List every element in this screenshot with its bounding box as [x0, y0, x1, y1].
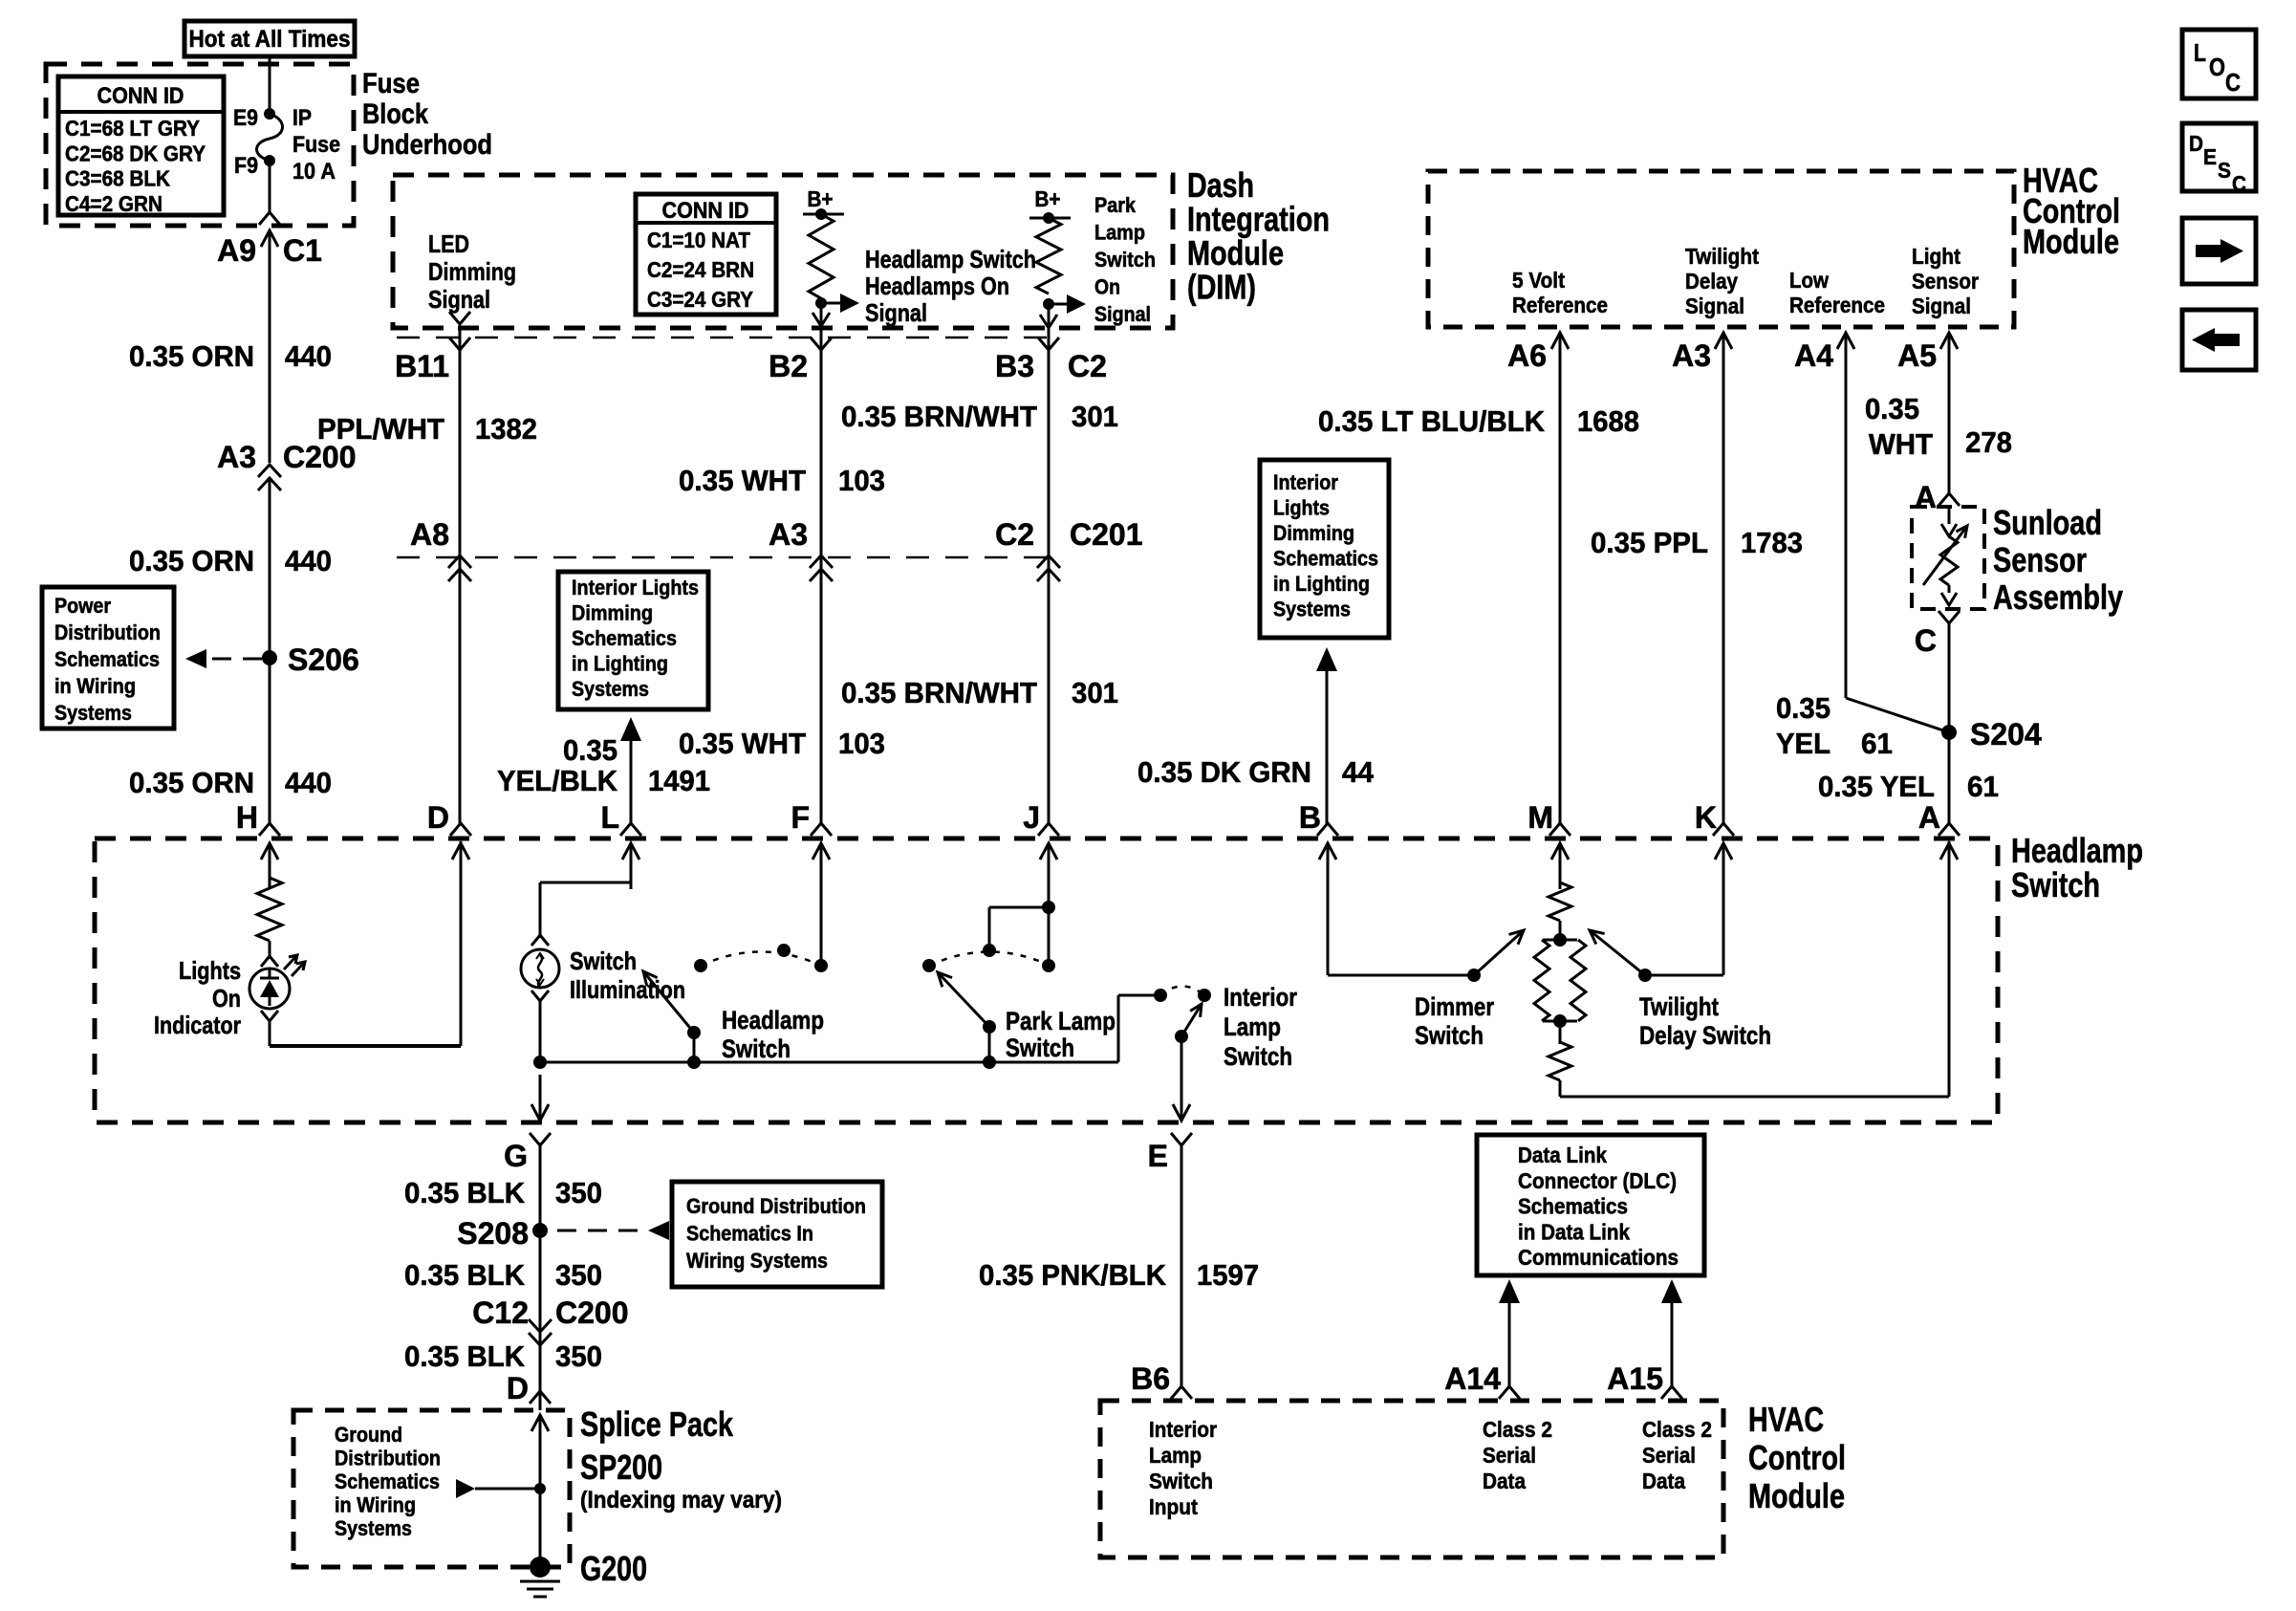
headlamp switch pin B — [1299, 800, 1338, 889]
resistor park lamp pullup — [1036, 218, 1061, 294]
label Sunload Sensor Assembly — [1993, 503, 2123, 617]
svg-text:0.35 BLK: 0.35 BLK — [404, 1339, 526, 1373]
svg-text:B+: B+ — [808, 186, 834, 211]
svg-text:0.35 BLK: 0.35 BLK — [404, 1258, 526, 1292]
svg-text:A3: A3 — [1672, 338, 1711, 373]
svg-text:S: S — [2218, 158, 2231, 183]
svg-text:Switch: Switch — [1006, 1034, 1074, 1062]
wire label 0.35 BRN/WHT 301 (2) — [841, 676, 1118, 709]
wire label 0.35 PNK/BLK 1597 — [979, 1258, 1259, 1292]
wire twilight contact to K — [1645, 843, 1723, 975]
svg-text:Systems: Systems — [572, 677, 649, 701]
inline connector C201 pin A3 — [769, 517, 833, 581]
junction and signal arrow: Headlamp Switch Headlamps On Signal — [815, 245, 1036, 327]
svg-text:Sunload: Sunload — [1993, 503, 2102, 542]
node B+ (park lamp pullup) — [1029, 186, 1071, 224]
lamp terminal chevron bottom — [531, 991, 549, 1001]
svg-text:C: C — [2232, 171, 2246, 196]
wire 440 ORN segment 3 — [269, 658, 271, 824]
svg-text:1491: 1491 — [648, 764, 710, 797]
svg-text:A: A — [1918, 800, 1940, 835]
pin label A3 — [1672, 338, 1711, 373]
svg-text:Reference: Reference — [1789, 293, 1885, 317]
wire 440 ORN segment 2 — [269, 480, 271, 658]
svg-text:Headlamp Switch: Headlamp Switch — [865, 245, 1036, 273]
svg-text:0.35: 0.35 — [563, 733, 617, 767]
DIM LED dimming exit chevron — [449, 312, 470, 324]
reference arrow inside splice pack — [456, 1479, 546, 1498]
svg-text:(DIM): (DIM) — [1187, 268, 1256, 307]
svg-text:E9: E9 — [233, 105, 258, 131]
svg-text:L: L — [600, 800, 619, 835]
svg-text:D: D — [427, 800, 449, 835]
wire label 0.35 LT BLU/BLK 1688 — [1318, 404, 1639, 438]
wire label 0.35 ORN 440 (1) — [129, 339, 332, 373]
twilight delay switch wiper — [1590, 930, 1652, 982]
svg-text:Interior: Interior — [1273, 470, 1338, 494]
svg-text:in Wiring: in Wiring — [335, 1493, 416, 1517]
dimmer switch wiper — [1467, 930, 1524, 982]
svg-text:Connector (DLC): Connector (DLC) — [1518, 1168, 1677, 1193]
svg-text:Switch: Switch — [570, 947, 637, 975]
svg-text:Distribution: Distribution — [54, 620, 161, 644]
svg-text:Delay Switch: Delay Switch — [1639, 1021, 1771, 1050]
park lamp switch wiper arm — [938, 972, 996, 1034]
HVAC pin text Light Sensor Signal — [1912, 244, 1979, 318]
Headlamp Switch dashed enclosure — [95, 838, 1998, 1122]
svg-text:Sensor: Sensor — [1912, 269, 1979, 294]
label HVAC Control Module (bottom) — [1748, 1400, 1846, 1515]
svg-text:Data: Data — [1483, 1469, 1526, 1493]
wire BLK 350 segment 1 — [539, 1145, 542, 1230]
wire BLK 350 segment 2 — [539, 1230, 542, 1331]
svg-text:in Lighting: in Lighting — [572, 652, 668, 676]
svg-text:Module: Module — [2023, 222, 2119, 261]
label Headlamp Switch — [2011, 831, 2143, 904]
svg-text:(Indexing may vary): (Indexing may vary) — [580, 1487, 782, 1513]
dashed reference arrow from S208 — [557, 1221, 669, 1240]
svg-text:Interior Lights: Interior Lights — [572, 576, 699, 599]
fuse F9 IP Fuse 10A — [233, 105, 340, 185]
dashed reference arrow to S206 — [185, 649, 266, 668]
svg-text:C3=24 GRY: C3=24 GRY — [647, 287, 753, 312]
junction J branch — [989, 901, 1055, 950]
exit arrow G — [530, 1075, 551, 1145]
splice S208 — [457, 1216, 548, 1251]
svg-text:K: K — [1695, 800, 1717, 835]
svg-text:Signal: Signal — [1685, 294, 1744, 318]
svg-text:O: O — [2209, 53, 2225, 81]
svg-text:Interior: Interior — [1224, 983, 1297, 1012]
svg-text:Lights: Lights — [1273, 496, 1330, 520]
label Dash Integration Module (DIM) — [1187, 165, 1330, 307]
interior lamp switch wiper arm — [1175, 1004, 1202, 1043]
ground G200 — [520, 1549, 647, 1597]
wire label 0.35 BRN/WHT 301 (1) — [841, 400, 1118, 433]
pin label B11 — [395, 349, 449, 383]
svg-text:Fuse: Fuse — [292, 132, 340, 158]
note box 1: Interior Lights Dimming Schematics in Lighting Systems — [558, 572, 708, 709]
svg-text:Dimming: Dimming — [428, 257, 516, 286]
svg-text:A3: A3 — [217, 440, 256, 474]
svg-text:in Lighting: in Lighting — [1273, 572, 1370, 596]
headlamp switch contact arc — [694, 944, 828, 972]
svg-text:C2=68 DK GRY: C2=68 DK GRY — [65, 141, 206, 165]
svg-text:Schematics: Schematics — [335, 1469, 440, 1493]
svg-text:A14: A14 — [1444, 1361, 1501, 1396]
park lamp switch contact arc — [922, 944, 1055, 972]
wire label 0.35 BLK 350 (1) — [404, 1176, 602, 1209]
svg-text:Distribution: Distribution — [335, 1447, 441, 1470]
svg-text:M: M — [1527, 800, 1553, 835]
note box: Ground Distribution Schematics In Wiring Systems — [672, 1182, 882, 1287]
svg-text:278: 278 — [1965, 425, 2012, 459]
svg-text:61: 61 — [1861, 727, 1893, 760]
headlamp switch pin F — [791, 800, 832, 889]
svg-text:0.35: 0.35 — [1865, 392, 1919, 425]
wire LED to D pin loop — [270, 841, 461, 1046]
HVAC pin text 5 Volt Reference — [1512, 268, 1608, 317]
wire WHT 278 (A5) — [1948, 354, 1951, 493]
svg-text:C12: C12 — [472, 1295, 529, 1330]
label HVAC Control Module (top) — [2023, 161, 2120, 261]
ground bus wire — [540, 1061, 1118, 1064]
svg-text:103: 103 — [838, 464, 885, 497]
arrow into note box 1 — [620, 717, 641, 824]
svg-text:Fuse: Fuse — [362, 68, 420, 99]
wire 440 ORN segment 1 — [269, 250, 271, 463]
svg-text:C1=68 LT GRY: C1=68 LT GRY — [65, 116, 200, 141]
HVAC Control Module dashed enclosure (bottom) — [1100, 1401, 1723, 1557]
svg-text:61: 61 — [1967, 770, 1999, 803]
svg-text:A5: A5 — [1897, 338, 1937, 373]
inline connector C201 pins C2 / C201 — [995, 517, 1142, 581]
wire label 0.35 BLK 350 (3) — [404, 1339, 602, 1373]
splice S206 — [262, 642, 359, 677]
wire label 0.35 YEL 61 — [1818, 770, 1999, 803]
inline connector C200 pin A3 — [217, 440, 356, 490]
svg-text:B2: B2 — [769, 349, 808, 383]
DIM exit arrow to B3 — [1040, 304, 1057, 328]
junction and signal arrow: Park Lamp Switch On Signal — [1043, 193, 1156, 326]
svg-text:A9: A9 — [217, 233, 256, 268]
svg-text:0.35 WHT: 0.35 WHT — [679, 464, 806, 497]
svg-text:YEL: YEL — [1776, 727, 1830, 760]
photocell sunload sensor — [1923, 509, 1967, 605]
headlamp switch pin M — [1527, 800, 1570, 889]
wire to parallel pair — [1559, 921, 1562, 942]
svg-text:HVAC: HVAC — [1748, 1400, 1824, 1439]
svg-text:5 Volt: 5 Volt — [1512, 268, 1565, 293]
svg-text:Interior: Interior — [1149, 1417, 1217, 1442]
class 2 serial data wire A15 — [1661, 1279, 1682, 1399]
svg-text:Park Lamp: Park Lamp — [1006, 1007, 1116, 1035]
label Splice Pack SP200 — [580, 1404, 782, 1513]
svg-text:1597: 1597 — [1197, 1258, 1259, 1292]
label Fuse Block Underhood — [362, 68, 492, 161]
wire H to resistor — [269, 843, 271, 880]
lamp terminal chevron top — [531, 935, 549, 946]
splice pack pin D — [507, 1371, 551, 1405]
svg-text:0.35: 0.35 — [1776, 691, 1830, 725]
svg-text:350: 350 — [555, 1339, 602, 1373]
svg-text:E: E — [1148, 1139, 1168, 1173]
headlamp switch pin L — [600, 800, 641, 889]
DIM connector dashed line (C201 row) — [397, 556, 1051, 559]
svg-text:Systems: Systems — [335, 1516, 412, 1540]
svg-text:S208: S208 — [457, 1216, 529, 1251]
resistor lights-on indicator — [257, 878, 282, 941]
node B+ (headlamp pullup) — [803, 186, 844, 220]
wire YEL 61 (S204 to A) — [1948, 732, 1951, 824]
svg-text:CONN ID: CONN ID — [662, 198, 749, 224]
svg-text:440: 440 — [285, 339, 332, 373]
wire label 0.35 YEL 61 (A4) — [1776, 691, 1893, 760]
wire label 0.35 WHT 103 (1) — [679, 464, 885, 497]
svg-text:C2: C2 — [1068, 349, 1107, 383]
LED lights on indicator — [249, 955, 305, 1009]
headlamp switch pin J — [1023, 800, 1059, 889]
label Switch Illumination — [570, 947, 685, 1004]
svg-text:Hot at All Times: Hot at All Times — [189, 26, 351, 53]
wire label 0.35 ORN 440 (2) — [129, 544, 332, 577]
svg-text:1382: 1382 — [475, 412, 537, 446]
svg-text:Splice Pack: Splice Pack — [580, 1404, 734, 1444]
svg-text:Underhood: Underhood — [362, 129, 492, 161]
svg-text:0.35 BRN/WHT: 0.35 BRN/WHT — [841, 400, 1037, 433]
svg-text:Reference: Reference — [1512, 293, 1608, 317]
pin label A5 — [1897, 338, 1937, 373]
pin label A4 — [1794, 338, 1833, 373]
svg-text:Headlamps On: Headlamps On — [865, 272, 1009, 300]
svg-text:On: On — [212, 984, 241, 1012]
resistor dimmer lower — [1549, 1021, 1571, 1080]
svg-text:301: 301 — [1072, 676, 1118, 709]
svg-text:Power: Power — [54, 594, 111, 618]
wire bus to interior lamp switch — [1118, 995, 1160, 1062]
label Headlamp Switch (contact) — [722, 1006, 824, 1063]
svg-text:Assembly: Assembly — [1993, 577, 2123, 617]
svg-text:A3: A3 — [769, 517, 808, 552]
svg-text:Schematics: Schematics — [1518, 1194, 1628, 1219]
resistor parallel right — [1570, 940, 1586, 1021]
svg-text:Block: Block — [362, 98, 428, 130]
svg-text:On: On — [1094, 275, 1120, 299]
junction parallel top — [1543, 933, 1577, 947]
label Interior Lamp Switch — [1224, 983, 1297, 1071]
svg-text:Low: Low — [1789, 268, 1829, 293]
svg-text:350: 350 — [555, 1176, 602, 1209]
svg-text:0.35 LT BLU/BLK: 0.35 LT BLU/BLK — [1318, 404, 1546, 438]
headlamp switch pin A — [1918, 800, 1960, 889]
wire headlamp wiper to bus — [687, 1033, 701, 1069]
svg-text:in Wiring: in Wiring — [54, 674, 136, 698]
svg-text:0.35 DK GRN: 0.35 DK GRN — [1137, 755, 1311, 789]
svg-text:C2=24 BRN: C2=24 BRN — [647, 257, 754, 282]
HVAC pin text Interior Lamp Switch Input — [1149, 1417, 1217, 1519]
svg-text:Schematics: Schematics — [572, 626, 677, 650]
svg-text:440: 440 — [285, 544, 332, 577]
svg-text:Class 2: Class 2 — [1642, 1417, 1712, 1442]
headlamp switch wiper arm — [643, 971, 701, 1039]
svg-text:44: 44 — [1342, 755, 1375, 789]
note box: Data Link Connector (DLC) Schematics in Data Link Communications — [1477, 1135, 1704, 1275]
wire from Hot at All Times into fuse — [269, 56, 271, 114]
svg-text:D: D — [2189, 131, 2203, 156]
wire J to park lamp contact — [1048, 843, 1051, 966]
headlamp switch pin D — [427, 800, 471, 889]
HVAC pin text Class 2 Serial Data (A14) — [1483, 1417, 1552, 1493]
arrow into note box 2 — [1316, 647, 1337, 824]
resistor dimmer upper — [1549, 882, 1571, 921]
svg-text:D: D — [507, 1371, 529, 1405]
wire interior wiper to E — [1180, 1036, 1183, 1121]
headlamp switch pin K — [1695, 800, 1734, 889]
note box 2: Interior Lights Dimming Schematics in Lighting Systems — [1260, 460, 1389, 638]
interior lamp switch contacts — [1154, 987, 1211, 1003]
DIM pin function text: LED Dimming Signal — [428, 229, 516, 314]
wire lamp to ground bus — [539, 999, 542, 1062]
svg-text:IP: IP — [292, 105, 312, 131]
svg-text:C2: C2 — [995, 517, 1034, 552]
svg-text:Data: Data — [1642, 1469, 1685, 1493]
svg-text:1783: 1783 — [1741, 526, 1803, 559]
Sunload Sensor Assembly dashed enclosure — [1912, 507, 1984, 609]
wire label PPL/WHT 1382 — [317, 412, 537, 446]
svg-text:Dimmer: Dimmer — [1415, 992, 1494, 1021]
svg-text:10 A: 10 A — [292, 159, 336, 185]
pin B6 — [1131, 1361, 1192, 1399]
headlamp switch pin H — [236, 800, 280, 889]
Splice Pack SP200 dashed enclosure — [293, 1410, 570, 1567]
lamp switch illumination — [521, 949, 559, 988]
svg-text:J: J — [1023, 800, 1040, 835]
svg-text:Signal: Signal — [1094, 302, 1151, 326]
svg-text:Twilight: Twilight — [1639, 992, 1719, 1021]
note box: Power Distribution Schematics in Wiring Systems — [42, 587, 174, 729]
exit arrow E — [1171, 1104, 1192, 1145]
wire fuse output — [269, 161, 271, 214]
svg-text:Input: Input — [1149, 1494, 1198, 1519]
svg-text:A4: A4 — [1794, 338, 1833, 373]
svg-text:SP200: SP200 — [580, 1448, 662, 1487]
HVAC pin text Class 2 Serial Data (A15) — [1642, 1417, 1712, 1493]
legend icon DESC — [2182, 123, 2256, 196]
DIM connector dashed line (C2 row) — [397, 337, 1051, 339]
svg-text:Switch: Switch — [1094, 248, 1156, 272]
wire label 0.35 DK GRN 44 — [1137, 755, 1375, 789]
svg-text:G: G — [504, 1139, 528, 1173]
pin chevron B2 — [811, 337, 832, 350]
svg-text:0.35 ORN: 0.35 ORN — [129, 766, 254, 799]
pin label A14 — [1444, 1361, 1501, 1396]
svg-text:C201: C201 — [1070, 517, 1143, 552]
svg-text:LED: LED — [428, 229, 469, 258]
splice S204 — [1941, 717, 2042, 751]
wire resistor network to pin A — [1560, 841, 1949, 1097]
svg-text:1688: 1688 — [1577, 404, 1639, 438]
svg-text:350: 350 — [555, 1258, 602, 1292]
svg-text:0.35 YEL: 0.35 YEL — [1818, 770, 1935, 803]
svg-text:0.35 PNK/BLK: 0.35 PNK/BLK — [979, 1258, 1167, 1292]
svg-text:Module: Module — [1748, 1476, 1845, 1515]
pin label B2 — [769, 349, 808, 383]
svg-text:Schematics In: Schematics In — [686, 1222, 813, 1246]
svg-text:A: A — [1915, 480, 1937, 514]
svg-text:Indicator: Indicator — [154, 1011, 241, 1039]
svg-text:0.35 BRN/WHT: 0.35 BRN/WHT — [841, 676, 1037, 709]
pin chevron B11 — [449, 337, 470, 350]
wire label 0.35 ORN 440 (3) — [129, 766, 332, 799]
svg-text:Switch: Switch — [2011, 865, 2100, 904]
svg-text:0.35 PPL: 0.35 PPL — [1591, 526, 1708, 559]
svg-text:C: C — [2225, 68, 2241, 97]
svg-text:Switch: Switch — [1149, 1469, 1213, 1493]
svg-text:C4=2 GRN: C4=2 GRN — [65, 191, 162, 216]
svg-text:Switch: Switch — [1224, 1042, 1292, 1071]
svg-text:H: H — [236, 800, 258, 835]
svg-text:A15: A15 — [1607, 1361, 1663, 1396]
svg-text:Signal: Signal — [865, 298, 927, 327]
pin labels B3 / C2 — [995, 349, 1107, 383]
svg-text:Lights: Lights — [179, 956, 241, 985]
wire L to lamp — [540, 843, 631, 938]
pin chevron at fuse block exit — [259, 212, 280, 225]
svg-text:0.35 ORN: 0.35 ORN — [129, 339, 254, 373]
svg-text:301: 301 — [1072, 400, 1118, 433]
svg-text:0.35 WHT: 0.35 WHT — [679, 727, 806, 760]
svg-text:Systems: Systems — [54, 701, 132, 725]
svg-text:Wiring Systems: Wiring Systems — [686, 1249, 828, 1273]
splice pack entry arrow — [531, 1415, 549, 1448]
svg-text:B3: B3 — [995, 349, 1034, 383]
svg-text:B+: B+ — [1035, 186, 1061, 211]
svg-text:Communications: Communications — [1518, 1245, 1679, 1270]
wire WHT 103 — [820, 326, 823, 824]
svg-text:S206: S206 — [288, 642, 359, 677]
svg-text:Headlamp: Headlamp — [722, 1006, 824, 1034]
svg-text:A8: A8 — [410, 517, 449, 552]
HVAC entry arrow A5 — [1940, 333, 1958, 375]
wire PNK/BLK 1597 — [1180, 1145, 1183, 1386]
connector ID table (DIM) — [636, 194, 776, 315]
HVAC pin text Low Reference — [1789, 268, 1885, 317]
wire label 0.35 WHT 103 (2) — [679, 727, 885, 760]
pin label G — [504, 1139, 528, 1173]
label Dimmer Switch — [1415, 992, 1494, 1050]
legend icon arrow right — [2182, 218, 2256, 284]
power feed label box: Hot at All Times — [184, 21, 355, 56]
resistor parallel left — [1534, 940, 1549, 1021]
wire BLK 350 segment 3 — [539, 1333, 542, 1410]
svg-text:Systems: Systems — [1273, 598, 1351, 621]
wire sunload output YEL 61 — [1948, 623, 1951, 732]
svg-text:Data Link: Data Link — [1518, 1143, 1607, 1167]
svg-text:B11: B11 — [395, 349, 449, 383]
svg-text:C3=68 BLK: C3=68 BLK — [65, 166, 170, 191]
pin chevron C (sunload) — [1915, 611, 1960, 658]
svg-text:E: E — [2203, 144, 2217, 169]
junction lamp/bus — [533, 1056, 547, 1069]
svg-text:Signal: Signal — [428, 285, 490, 314]
svg-text:C1: C1 — [283, 233, 322, 268]
svg-text:Light: Light — [1912, 244, 1960, 269]
svg-text:Class 2: Class 2 — [1483, 1417, 1552, 1442]
svg-text:A6: A6 — [1507, 338, 1547, 373]
fuse block underhood dashed enclosure — [46, 64, 354, 226]
wire B to dimmer contact — [1328, 843, 1474, 975]
svg-text:S204: S204 — [1970, 717, 2042, 751]
